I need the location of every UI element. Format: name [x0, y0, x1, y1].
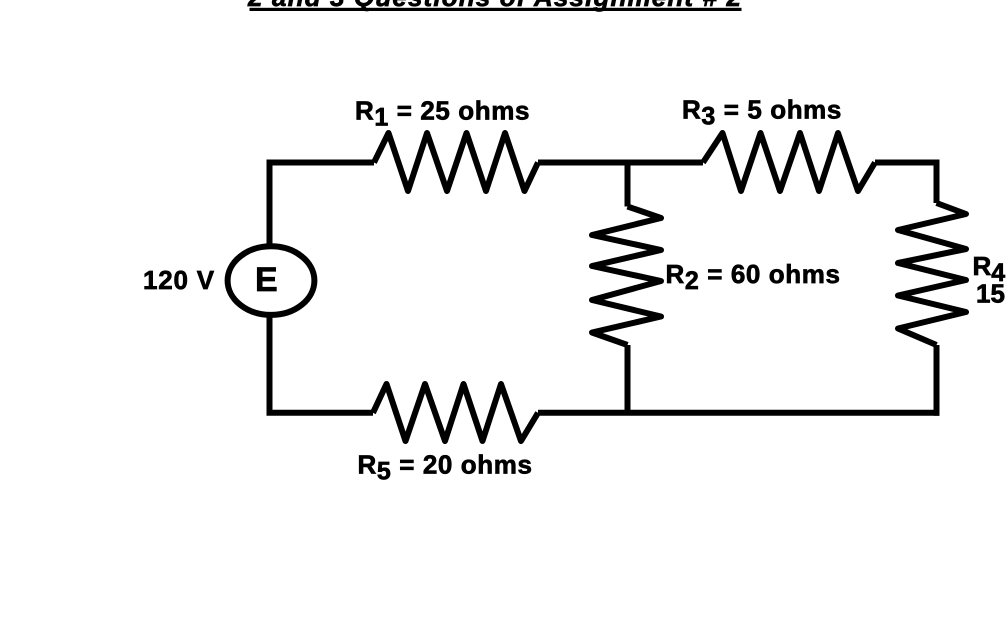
wire: top rail middle segment	[538, 160, 703, 166]
wire: bottom rail left segment	[267, 410, 374, 416]
title underline	[250, 8, 742, 11]
wire: left vertical top (source to top rail)	[267, 163, 273, 249]
wire: left vertical bottom (source to bottom rail)	[267, 313, 273, 413]
wire: right vertical bottom stub	[934, 345, 940, 416]
wire: top rail left segment	[267, 160, 375, 166]
wire: bottom rail right segment	[538, 410, 940, 416]
voltage source E (circle)	[228, 246, 315, 315]
resistor R1 (25 ohms, top left zigzag)	[374, 133, 538, 191]
wire: right vertical top stub	[934, 160, 940, 204]
svg-text:R1 = 25 ohms: R1 = 25 ohms	[355, 96, 530, 132]
wire: middle vertical top stub (node to R2)	[625, 163, 631, 207]
svg-text:R5 = 20 ohms: R5 = 20 ohms	[358, 450, 533, 486]
resistor R2 (60 ohms, vertical zigzag middle)	[592, 207, 661, 346]
resistor R4 (vertical zigzag right)	[898, 203, 966, 345]
svg-text:120 V: 120 V	[143, 265, 215, 295]
svg-text:R2 = 60 ohms: R2 = 60 ohms	[666, 259, 841, 295]
svg-text:E: E	[255, 261, 278, 299]
resistor R5 (20 ohms, bottom zigzag)	[373, 384, 538, 441]
svg-text:R3 = 5 ohms: R3 = 5 ohms	[682, 95, 842, 131]
wire: middle vertical bottom stub (R2 to bottom rail)	[625, 345, 631, 413]
svg-text:15 ohms: 15 ohms	[976, 279, 1008, 309]
resistor R3 (5 ohms, top right zigzag)	[703, 133, 875, 191]
wire: top rail right segment	[875, 160, 937, 166]
